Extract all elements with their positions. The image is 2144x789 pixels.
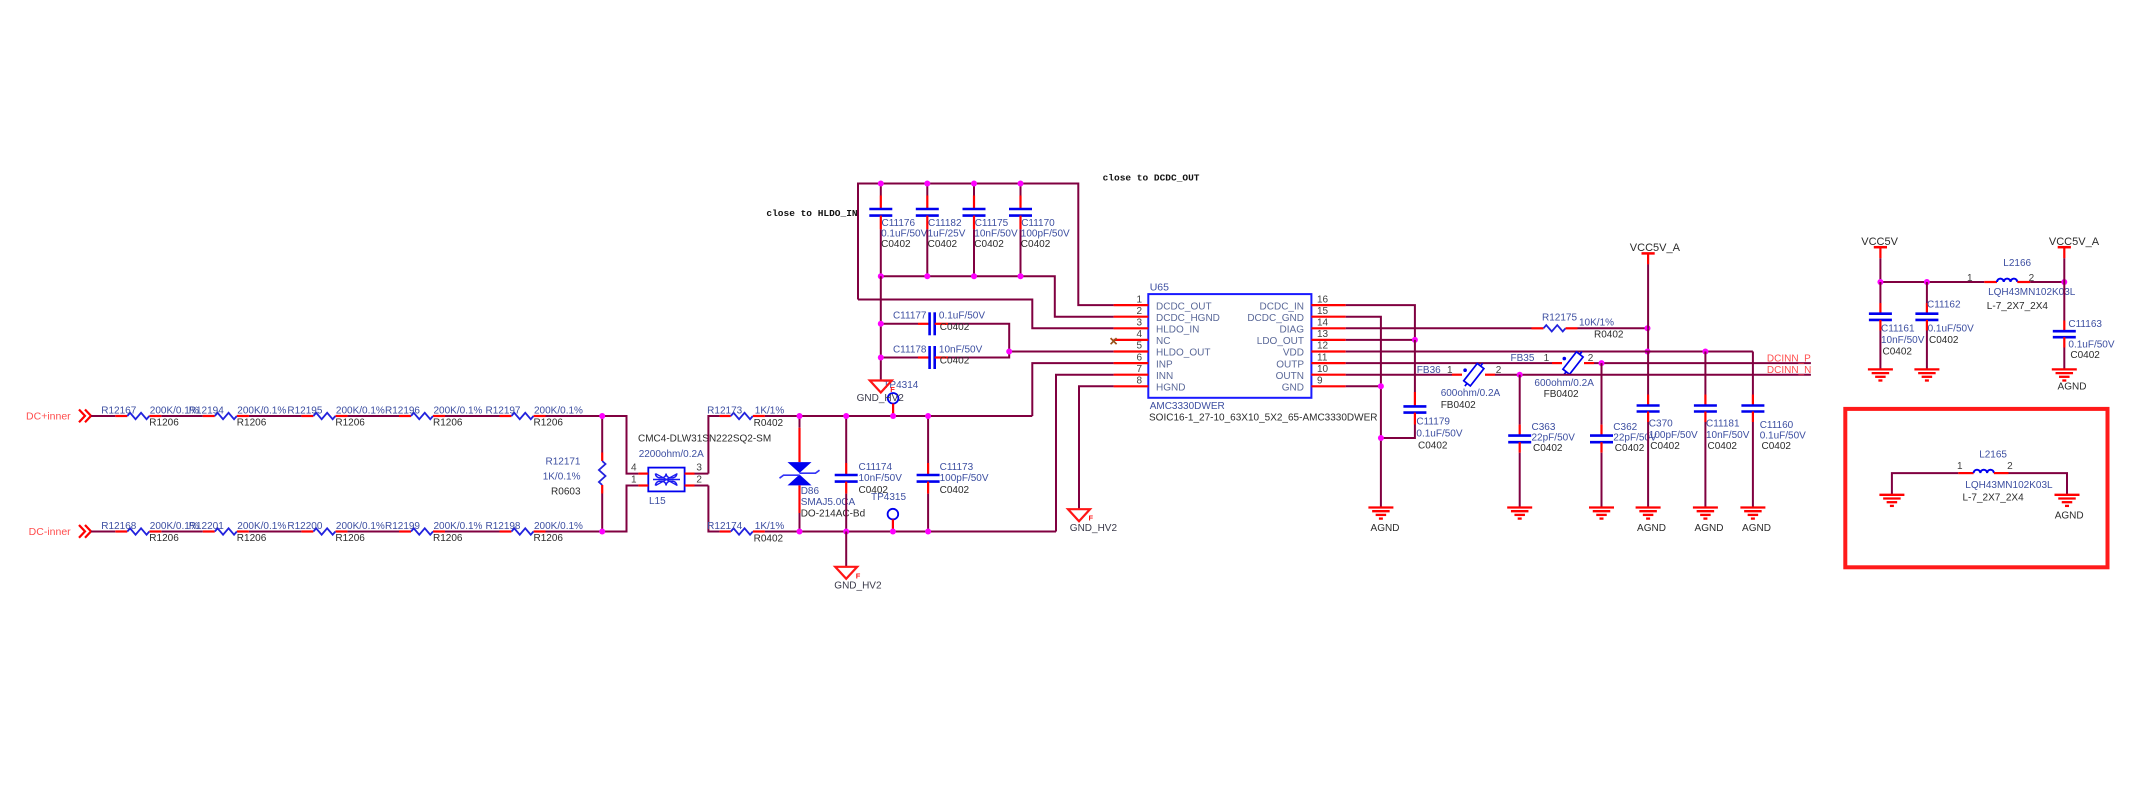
svg-text:R0402: R0402 bbox=[754, 418, 784, 429]
svg-text:INN: INN bbox=[1156, 371, 1173, 382]
svg-text:C0402: C0402 bbox=[974, 239, 1004, 250]
ground AGND below C11181 bbox=[1693, 508, 1724, 535]
svg-text:C0402: C0402 bbox=[1762, 441, 1792, 452]
wire INP net R12173 to U65 pin6 bbox=[765, 363, 1114, 416]
svg-text:C0402: C0402 bbox=[2070, 350, 2100, 361]
port DC+inner bbox=[26, 410, 91, 423]
svg-text:AGND: AGND bbox=[2058, 382, 2087, 393]
svg-text:HLDO_IN: HLDO_IN bbox=[1156, 325, 1199, 336]
svg-text:L-7_2X7_2X4: L-7_2X7_2X4 bbox=[1987, 301, 2049, 312]
svg-text:R1206: R1206 bbox=[335, 417, 365, 428]
svg-text:C0402: C0402 bbox=[940, 322, 970, 333]
wire DCDC_HGND bottom rail to U65 pin2 bbox=[881, 276, 1114, 316]
svg-text:10nF/50V: 10nF/50V bbox=[1706, 430, 1750, 441]
svg-text:C11163: C11163 bbox=[2068, 319, 2102, 330]
svg-text:200K/0.1%: 200K/0.1% bbox=[534, 521, 583, 532]
capacitor C11170 100pF/50V C0402 bbox=[1009, 184, 1070, 277]
resistor R12196 200K/0.1% R1206 bbox=[385, 406, 483, 429]
wire HGND U65 pin8 to ground bbox=[1079, 386, 1114, 509]
svg-text:R12201: R12201 bbox=[189, 521, 224, 532]
svg-text:C11181: C11181 bbox=[1706, 418, 1740, 429]
svg-text:LQH43MN102K03L: LQH43MN102K03L bbox=[1988, 287, 2076, 298]
ground AGND below C362 bbox=[1589, 508, 1614, 519]
svg-text:1: 1 bbox=[1957, 461, 1963, 472]
capacitor C370 100pF/50V C0402 bbox=[1637, 352, 1698, 508]
svg-text:200K/0.1%: 200K/0.1% bbox=[534, 406, 583, 417]
svg-text:C11174: C11174 bbox=[859, 462, 893, 473]
inductor L2166 LQH43MN102K03L bbox=[1967, 258, 2076, 312]
diode D86 SMAJ5.0CA DO-214AC-Bd (TVS) bbox=[780, 416, 866, 532]
svg-text:AGND: AGND bbox=[1742, 523, 1771, 534]
wire C11174 column to ground bbox=[845, 532, 847, 567]
svg-text:C11179: C11179 bbox=[1416, 417, 1450, 428]
svg-text:DC-inner: DC-inner bbox=[29, 526, 72, 538]
svg-text:R12199: R12199 bbox=[385, 521, 420, 532]
ground GND_HV2 below C11177/C11178 bbox=[857, 381, 905, 405]
ground AGND at U65 GND net bbox=[1368, 508, 1399, 534]
svg-text:0.1uF/50V: 0.1uF/50V bbox=[1760, 431, 1806, 442]
svg-text:L2166: L2166 bbox=[2003, 258, 2031, 269]
svg-text:CMC4-DLW31SN222SQ2-SM: CMC4-DLW31SN222SQ2-SM bbox=[638, 434, 771, 445]
svg-text:HGND: HGND bbox=[1156, 383, 1185, 394]
svg-text:VDD: VDD bbox=[1283, 348, 1304, 359]
svg-text:1: 1 bbox=[1136, 294, 1142, 305]
svg-text:10: 10 bbox=[1317, 364, 1329, 375]
svg-text:12: 12 bbox=[1317, 341, 1329, 352]
svg-text:L2165: L2165 bbox=[1979, 449, 2007, 460]
ground GND_HV2 below C11174 bbox=[834, 567, 882, 592]
svg-text:DIAG: DIAG bbox=[1280, 325, 1305, 336]
junction DC- / R12171 bbox=[599, 529, 605, 535]
wire DCDC_GND U65 pin15 down to GND net bbox=[1346, 317, 1381, 387]
ground AGND below C363 bbox=[1507, 508, 1532, 519]
svg-text:15: 15 bbox=[1317, 306, 1329, 317]
svg-text:200K/0.1%: 200K/0.1% bbox=[434, 406, 483, 417]
svg-text:DCDC_IN: DCDC_IN bbox=[1260, 301, 1304, 312]
svg-text:10nF/50V: 10nF/50V bbox=[859, 473, 903, 484]
wire L2165 pin2 to AGND bbox=[2009, 473, 2068, 495]
svg-text:2: 2 bbox=[1588, 353, 1594, 364]
testpoint TP4315 bbox=[871, 492, 906, 535]
svg-text:200K/0.1%: 200K/0.1% bbox=[434, 521, 483, 532]
wire OUTN U65 pin10 to DCINN_N bbox=[1346, 372, 1811, 378]
svg-text:C0402: C0402 bbox=[1615, 443, 1645, 454]
svg-text:OUTN: OUTN bbox=[1276, 371, 1304, 382]
svg-text:0.1uF/50V: 0.1uF/50V bbox=[2068, 340, 2114, 351]
svg-text:GND_HV2: GND_HV2 bbox=[1070, 523, 1118, 534]
svg-text:10nF/50V: 10nF/50V bbox=[939, 344, 983, 355]
svg-text:R1206: R1206 bbox=[433, 533, 463, 544]
choke L15 CMC4-DLW31SN222SQ2-SM 2200ohm/0.2A bbox=[631, 434, 771, 507]
svg-text:R1206: R1206 bbox=[149, 417, 179, 428]
svg-text:GND_HV2: GND_HV2 bbox=[834, 580, 882, 591]
ground GND_HV2 at U65 pin8 bbox=[1068, 509, 1117, 534]
svg-text:16: 16 bbox=[1317, 294, 1329, 305]
capacitor C363 22pF/50V C0402 bbox=[1508, 375, 1575, 508]
svg-text:TP4315: TP4315 bbox=[871, 492, 906, 503]
capacitor C11163 0.1uF/50V C0402 bbox=[2053, 282, 2115, 369]
svg-text:0.1uF/50V: 0.1uF/50V bbox=[1928, 324, 1974, 335]
svg-text:1K/0.1%: 1K/0.1% bbox=[543, 472, 581, 483]
svg-text:R1206: R1206 bbox=[534, 417, 564, 428]
svg-text:R0603: R0603 bbox=[551, 487, 581, 498]
svg-text:C0402: C0402 bbox=[1021, 239, 1051, 250]
svg-text:DCINN_N: DCINN_N bbox=[1767, 365, 1811, 376]
svg-text:INP: INP bbox=[1156, 359, 1173, 370]
capacitor C362 22pF/50V C0402 bbox=[1590, 363, 1657, 507]
wire left ground to L2165 bbox=[1892, 473, 1958, 495]
svg-text:200K/0.1%: 200K/0.1% bbox=[336, 521, 385, 532]
power VCC5V bbox=[1861, 236, 1898, 282]
wire DCDC_IN U65 pin16 down to LDO_OUT bbox=[1346, 305, 1415, 340]
wire VCC5V_A column to VDD line bbox=[1645, 328, 1651, 354]
svg-text:FB0402: FB0402 bbox=[1441, 400, 1476, 411]
wire HLDO_OUT to U65 pin5 bbox=[1006, 349, 1113, 355]
resistor R12174 1K/1% R0402 bbox=[707, 521, 784, 544]
svg-text:200K/0.1%: 200K/0.1% bbox=[336, 406, 385, 417]
svg-text:6: 6 bbox=[1136, 352, 1142, 363]
resistor R12175 10K/1% R0402 bbox=[1532, 312, 1624, 340]
svg-text:VCC5V_A: VCC5V_A bbox=[2049, 236, 2100, 248]
svg-text:SMAJ5.0CA: SMAJ5.0CA bbox=[801, 497, 856, 508]
ground below C11162 bbox=[1914, 369, 1939, 380]
svg-text:R12195: R12195 bbox=[287, 406, 322, 417]
svg-text:C11162: C11162 bbox=[1927, 300, 1961, 311]
wire GND_HV2 branch (left plates of C11177/C11178) bbox=[880, 276, 882, 380]
svg-text:C11173: C11173 bbox=[940, 462, 974, 473]
resistor R12171 1K/0.1% R0603 (vertical) bbox=[543, 416, 606, 532]
highlight box (red) bbox=[1845, 409, 2107, 567]
svg-text:600ohm/0.2A: 600ohm/0.2A bbox=[1441, 388, 1501, 399]
svg-text:R1206: R1206 bbox=[237, 417, 267, 428]
svg-text:close to DCDC_OUT: close to DCDC_OUT bbox=[1103, 172, 1200, 183]
wire INN net R12174 to U65 pin7 bbox=[765, 375, 1114, 532]
svg-text:L15: L15 bbox=[649, 496, 666, 507]
svg-text:GND: GND bbox=[1282, 383, 1304, 394]
wire VCC5V rail to L2166 bbox=[1877, 279, 1984, 285]
wire GND U65 pin9 to AGND bbox=[1346, 383, 1384, 507]
svg-text:DC+inner: DC+inner bbox=[26, 411, 71, 423]
svg-text:R12200: R12200 bbox=[287, 521, 322, 532]
svg-text:AMC3330DWER: AMC3330DWER bbox=[1150, 401, 1225, 412]
svg-text:100pF/50V: 100pF/50V bbox=[1649, 430, 1698, 441]
capacitor C11181 10nF/50V C0402 bbox=[1694, 352, 1750, 508]
svg-text:F: F bbox=[856, 571, 861, 580]
svg-text:C11175: C11175 bbox=[975, 218, 1009, 229]
svg-text:VCC5V: VCC5V bbox=[1861, 236, 1898, 248]
svg-text:C0402: C0402 bbox=[1883, 346, 1913, 357]
svg-text:SOIC16-1_27-10_63X10_5X2_65-AM: SOIC16-1_27-10_63X10_5X2_65-AMC3330DWER bbox=[1149, 412, 1377, 423]
resistor R12198 200K/0.1% R1206 bbox=[485, 521, 583, 544]
svg-text:C370: C370 bbox=[1649, 418, 1673, 429]
resistor R12199 200K/0.1% R1206 bbox=[385, 521, 483, 544]
svg-text:1: 1 bbox=[631, 475, 637, 486]
testpoint TP4314 bbox=[883, 380, 918, 419]
wire L15 pin3 to R12173 corner bbox=[695, 416, 720, 474]
svg-text:VCC5V_A: VCC5V_A bbox=[1630, 242, 1681, 254]
note close to DCDC_OUT bbox=[1103, 172, 1200, 183]
capacitor C11177 0.1uF/50V C0402 bbox=[878, 311, 1009, 352]
svg-text:LDO_OUT: LDO_OUT bbox=[1257, 336, 1304, 347]
ground AGND below C11163 bbox=[2052, 369, 2087, 392]
resistor R12173 1K/1% R0402 bbox=[707, 406, 784, 429]
svg-text:R12194: R12194 bbox=[189, 406, 224, 417]
resistor R12201 200K/0.1% R1206 bbox=[189, 521, 287, 544]
svg-text:5: 5 bbox=[1136, 341, 1142, 352]
svg-text:4: 4 bbox=[631, 463, 637, 474]
svg-text:R1206: R1206 bbox=[237, 533, 267, 544]
svg-text:R12196: R12196 bbox=[385, 406, 420, 417]
note close to HLDO_IN bbox=[766, 208, 858, 219]
svg-text:1: 1 bbox=[1967, 273, 1973, 284]
svg-text:F: F bbox=[1089, 514, 1094, 523]
svg-text:100pF/50V: 100pF/50V bbox=[940, 473, 989, 484]
port DC-inner bbox=[29, 525, 91, 538]
svg-text:C0402: C0402 bbox=[940, 356, 970, 367]
junction DC+ / R12171 bbox=[599, 413, 605, 419]
svg-text:0.1uF/50V: 0.1uF/50V bbox=[1416, 429, 1462, 440]
svg-text:1: 1 bbox=[1447, 365, 1453, 376]
svg-text:1: 1 bbox=[1544, 353, 1550, 364]
svg-text:11: 11 bbox=[1317, 352, 1328, 363]
svg-text:R1206: R1206 bbox=[149, 533, 179, 544]
op-amp U65 AMC3330DWER (isolated amplifier) bbox=[1114, 281, 1378, 423]
ground below C11161 bbox=[1868, 369, 1893, 380]
svg-text:R12175: R12175 bbox=[1542, 312, 1577, 323]
svg-text:2: 2 bbox=[1496, 365, 1502, 376]
svg-text:DO-214AC-Bd: DO-214AC-Bd bbox=[801, 508, 865, 519]
power VCC5V_A (far right) bbox=[2049, 236, 2100, 282]
capacitor C11173 100pF/50V C0402 bbox=[917, 416, 989, 532]
svg-text:22pF/50V: 22pF/50V bbox=[1532, 433, 1576, 444]
capacitor C11160 0.1uF/50V C0402 bbox=[1741, 352, 1806, 508]
svg-text:C0402: C0402 bbox=[940, 485, 970, 496]
svg-text:R1206: R1206 bbox=[534, 533, 564, 544]
svg-text:DCDC_HGND: DCDC_HGND bbox=[1156, 313, 1220, 324]
svg-text:13: 13 bbox=[1317, 329, 1329, 340]
svg-text:8: 8 bbox=[1136, 376, 1142, 387]
svg-text:200K/0.1%: 200K/0.1% bbox=[237, 521, 286, 532]
svg-text:R12174: R12174 bbox=[707, 521, 742, 532]
capacitor C11178 10nF/50V C0402 bbox=[878, 344, 1009, 369]
resistor R12200 200K/0.1% R1206 bbox=[287, 521, 385, 544]
ground AGND below C11160 bbox=[1740, 508, 1771, 535]
svg-text:GND_HV2: GND_HV2 bbox=[857, 393, 905, 404]
svg-text:L-7_2X7_2X4: L-7_2X7_2X4 bbox=[1963, 493, 2025, 504]
svg-text:14: 14 bbox=[1317, 318, 1329, 329]
ferrite bead FB36 600ohm/0.2A FB0402 bbox=[1417, 361, 1502, 411]
ground AGND (right, in box) bbox=[2055, 495, 2084, 522]
svg-text:2: 2 bbox=[1136, 306, 1142, 317]
wire VDD U65 pin12 rail bbox=[1346, 349, 1753, 355]
svg-text:AGND: AGND bbox=[1637, 523, 1666, 534]
svg-text:HLDO_OUT: HLDO_OUT bbox=[1156, 348, 1210, 359]
svg-text:AGND: AGND bbox=[1695, 523, 1724, 534]
ground AGND below C370 bbox=[1636, 508, 1666, 535]
svg-text:R12197: R12197 bbox=[485, 406, 520, 417]
svg-text:C0402: C0402 bbox=[1929, 335, 1959, 346]
svg-text:R0402: R0402 bbox=[754, 533, 784, 544]
wire L2166 pin2 to VCC5V_A column bbox=[2030, 279, 2067, 285]
resistor R12195 200K/0.1% R1206 bbox=[287, 406, 385, 429]
no-connect X on U65 pin4 NC bbox=[1111, 338, 1117, 344]
svg-text:NC: NC bbox=[1156, 336, 1170, 347]
svg-text:D86: D86 bbox=[801, 486, 820, 497]
capacitor C11162 0.1uF/50V C0402 bbox=[1915, 282, 1974, 369]
svg-text:C11170: C11170 bbox=[1021, 218, 1055, 229]
svg-text:3: 3 bbox=[696, 463, 702, 474]
wire DC+inner net (top resistor chain) bbox=[91, 416, 638, 474]
capacitor C11176 0.1uF/50V C0402 bbox=[869, 184, 927, 277]
wire DC-inner net (bottom resistor chain) bbox=[91, 486, 638, 532]
svg-text:C0402: C0402 bbox=[881, 239, 911, 250]
svg-text:FB35: FB35 bbox=[1511, 353, 1535, 364]
svg-text:3: 3 bbox=[1136, 318, 1142, 329]
svg-text:LQH43MN102K03L: LQH43MN102K03L bbox=[1965, 480, 2053, 491]
capacitor C11182 1uF/25V C0402 bbox=[916, 184, 966, 277]
wire L15 pin2 to R12174 corner bbox=[695, 486, 720, 532]
wire LDO_OUT U65 pin13 bbox=[1346, 337, 1418, 343]
svg-text:OUTP: OUTP bbox=[1276, 359, 1304, 370]
ground (left, in box) bbox=[1879, 495, 1904, 506]
net label DCINN_N bbox=[1767, 365, 1811, 376]
wire OUTP U65 pin11 to DCINN_P bbox=[1346, 360, 1811, 366]
svg-text:C11182: C11182 bbox=[928, 218, 962, 229]
svg-text:C11160: C11160 bbox=[1760, 420, 1794, 431]
wire R12175 to VCC5V_A column bbox=[1578, 325, 1651, 331]
svg-text:U65: U65 bbox=[1150, 281, 1169, 293]
resistor R12167 200K/0.1% R1206 bbox=[101, 406, 199, 429]
svg-text:R12168: R12168 bbox=[101, 521, 136, 532]
svg-text:2: 2 bbox=[2007, 461, 2013, 472]
svg-text:DCDC_OUT: DCDC_OUT bbox=[1156, 301, 1212, 312]
capacitor C11175 10nF/50V C0402 bbox=[963, 184, 1018, 277]
resistor R12194 200K/0.1% R1206 bbox=[189, 406, 287, 429]
svg-text:10nF/50V: 10nF/50V bbox=[1881, 335, 1925, 346]
inductor L2165 LQH43MN102K03L bbox=[1957, 449, 2053, 503]
wire DIAG U65 pin14 to R12175 bbox=[1346, 327, 1532, 329]
svg-text:R12198: R12198 bbox=[485, 521, 520, 532]
svg-text:close to HLDO_IN: close to HLDO_IN bbox=[766, 208, 858, 219]
svg-text:9: 9 bbox=[1317, 376, 1323, 387]
svg-text:DCDC_GND: DCDC_GND bbox=[1247, 313, 1304, 324]
svg-text:FB0402: FB0402 bbox=[1544, 389, 1579, 400]
svg-text:1K/1%: 1K/1% bbox=[755, 521, 785, 532]
svg-text:200K/0.1%: 200K/0.1% bbox=[237, 406, 286, 417]
svg-text:C0402: C0402 bbox=[1533, 443, 1563, 454]
ferrite bead FB35 600ohm/0.2A FB0402 bbox=[1511, 349, 1595, 400]
svg-text:0.1uF/50V: 0.1uF/50V bbox=[939, 311, 985, 322]
svg-text:7: 7 bbox=[1136, 364, 1142, 375]
wire DCDC_OUT/HLDO_IN top rail bbox=[858, 184, 1114, 306]
svg-text:R1206: R1206 bbox=[433, 417, 463, 428]
net label DCINN_P bbox=[1767, 354, 1811, 365]
resistor R12197 200K/0.1% R1206 bbox=[485, 406, 583, 429]
svg-text:DCINN_P: DCINN_P bbox=[1767, 354, 1811, 365]
svg-text:10K/1%: 10K/1% bbox=[1579, 317, 1614, 328]
svg-text:C11177: C11177 bbox=[893, 311, 927, 322]
power VCC5V_A (pull-up) bbox=[1630, 242, 1681, 328]
svg-text:R12167: R12167 bbox=[101, 406, 136, 417]
svg-text:C11178: C11178 bbox=[893, 344, 927, 355]
svg-text:AGND: AGND bbox=[1371, 523, 1400, 534]
svg-text:C0402: C0402 bbox=[1650, 441, 1680, 452]
svg-text:FB36: FB36 bbox=[1417, 365, 1441, 376]
resistor R12168 200K/0.1% R1206 bbox=[101, 521, 199, 544]
svg-text:C0402: C0402 bbox=[1708, 441, 1738, 452]
svg-text:R0402: R0402 bbox=[1594, 329, 1624, 340]
svg-text:C0402: C0402 bbox=[928, 239, 958, 250]
capacitor C11161 10nF/50V C0402 bbox=[1869, 282, 1925, 369]
svg-text:600ohm/0.2A: 600ohm/0.2A bbox=[1534, 378, 1594, 389]
svg-text:2: 2 bbox=[696, 475, 702, 486]
svg-text:C362: C362 bbox=[1613, 422, 1637, 433]
svg-text:R1206: R1206 bbox=[335, 533, 365, 544]
svg-text:C363: C363 bbox=[1532, 422, 1556, 433]
svg-text:4: 4 bbox=[1136, 329, 1142, 340]
svg-text:R12173: R12173 bbox=[707, 406, 742, 417]
svg-text:C11176: C11176 bbox=[882, 218, 916, 229]
capacitor C11174 10nF/50V C0402 bbox=[835, 416, 902, 532]
svg-text:R12171: R12171 bbox=[545, 456, 580, 467]
svg-text:1K/1%: 1K/1% bbox=[755, 406, 785, 417]
capacitor C11179 0.1uF/50V C0402 bbox=[1378, 340, 1463, 452]
wire HLDO_IN to U65 pin3 bbox=[858, 300, 1114, 329]
svg-text:C0402: C0402 bbox=[1418, 441, 1448, 452]
svg-text:2200ohm/0.2A: 2200ohm/0.2A bbox=[639, 449, 704, 460]
svg-text:C11161: C11161 bbox=[1881, 324, 1915, 335]
svg-text:AGND: AGND bbox=[2055, 511, 2084, 522]
